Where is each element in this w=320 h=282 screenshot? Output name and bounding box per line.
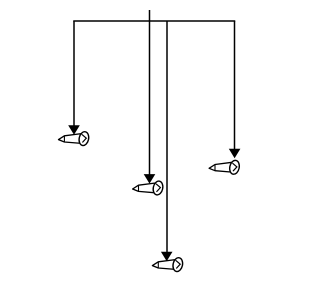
wire: horizontal bus — [73, 20, 235, 22]
screw 2 (center) — [133, 180, 164, 196]
wire: center-right vertical — [166, 21, 168, 252]
screw 3 (right) — [209, 159, 240, 175]
wire: left vertical — [73, 21, 75, 126]
arrowhead left — [68, 125, 80, 135]
wire: top stub + center vertical line — [149, 10, 151, 175]
arrowhead center — [144, 174, 156, 184]
screw 1 (left) — [59, 131, 90, 147]
arrowhead right — [229, 149, 241, 159]
wire: right vertical — [234, 21, 236, 149]
arrowhead bottom — [161, 252, 173, 262]
screw 4 (bottom) — [152, 257, 183, 273]
